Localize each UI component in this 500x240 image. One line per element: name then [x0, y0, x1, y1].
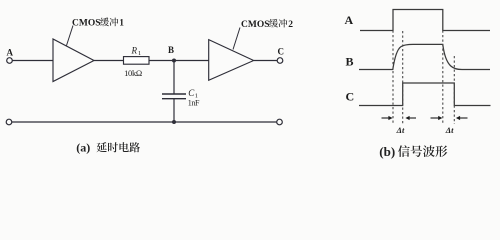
svg-text:Δt: Δt: [445, 125, 454, 135]
svg-text:CMOS: CMOS: [72, 19, 101, 29]
svg-text:1: 1: [138, 50, 141, 57]
wire A to buffer 1: [12, 60, 53, 62]
dashed guide line at A falling edge: [442, 31, 444, 125]
waveform trace C: [359, 83, 491, 106]
input terminal A: [7, 58, 13, 64]
output terminal C: [277, 58, 283, 64]
wire C1 down to bottom rail: [173, 99, 175, 122]
waveform trace B (RC curve): [359, 44, 490, 69]
waveform trace A: [360, 10, 490, 31]
svg-text:1: 1: [119, 19, 124, 29]
svg-text:R: R: [131, 46, 138, 56]
dimension arrow right-inner (points left at fourth dashed line): [458, 117, 468, 119]
dashed guide line at C falling edge: [453, 56, 455, 124]
wire R1 to buffer 2 through node B: [149, 60, 209, 62]
caption (b) signal waveforms: [379, 144, 447, 159]
label CMOS buffer 2: [241, 19, 293, 30]
label CMOS buffer 1: [72, 18, 124, 29]
wire node B down to C1: [173, 61, 175, 95]
svg-text:(b): (b): [379, 144, 395, 159]
dimension arrow left-outer (points right at first dashed line): [382, 117, 391, 119]
svg-text:1nF: 1nF: [188, 99, 200, 108]
dashed guide line at A rising edge: [392, 31, 394, 125]
svg-text:CMOS: CMOS: [241, 20, 270, 30]
svg-text:A: A: [7, 48, 14, 58]
bottom-right terminal: [277, 119, 283, 125]
svg-text:B: B: [168, 45, 174, 55]
dimension arrow left-inner (points left at second dashed line): [408, 117, 416, 119]
callout line to label CMOS buffer 2: [233, 28, 240, 50]
resistor R1 body: [124, 57, 150, 65]
op-amp buffer U2 (CMOS buffer 2): [209, 40, 254, 81]
bottom rail wire: [12, 121, 277, 123]
wire buffer 1 output to R1: [94, 60, 124, 62]
svg-text:A: A: [345, 13, 354, 27]
node B junction dot: [172, 59, 176, 63]
svg-text:B: B: [346, 55, 354, 69]
bottom-left terminal: [6, 119, 12, 125]
wire buffer 2 to output terminal C: [254, 60, 278, 62]
svg-text:2: 2: [288, 20, 293, 30]
op-amp buffer U1 (CMOS buffer 1): [53, 39, 94, 82]
caption (a) delay circuit: [76, 141, 140, 155]
dimension arrow right-outer (points right at third dashed line): [431, 117, 441, 119]
svg-text:10kΩ: 10kΩ: [124, 68, 142, 78]
svg-text:C: C: [278, 47, 285, 57]
capacitor C1 plates: [162, 94, 186, 99]
svg-text:C: C: [346, 90, 355, 104]
bottom rail junction dot: [172, 120, 176, 124]
callout line to label CMOS buffer 1: [67, 26, 74, 46]
svg-text:(a): (a): [76, 141, 90, 155]
svg-text:Δt: Δt: [396, 125, 405, 135]
dashed guide line at C rising edge: [402, 31, 404, 124]
